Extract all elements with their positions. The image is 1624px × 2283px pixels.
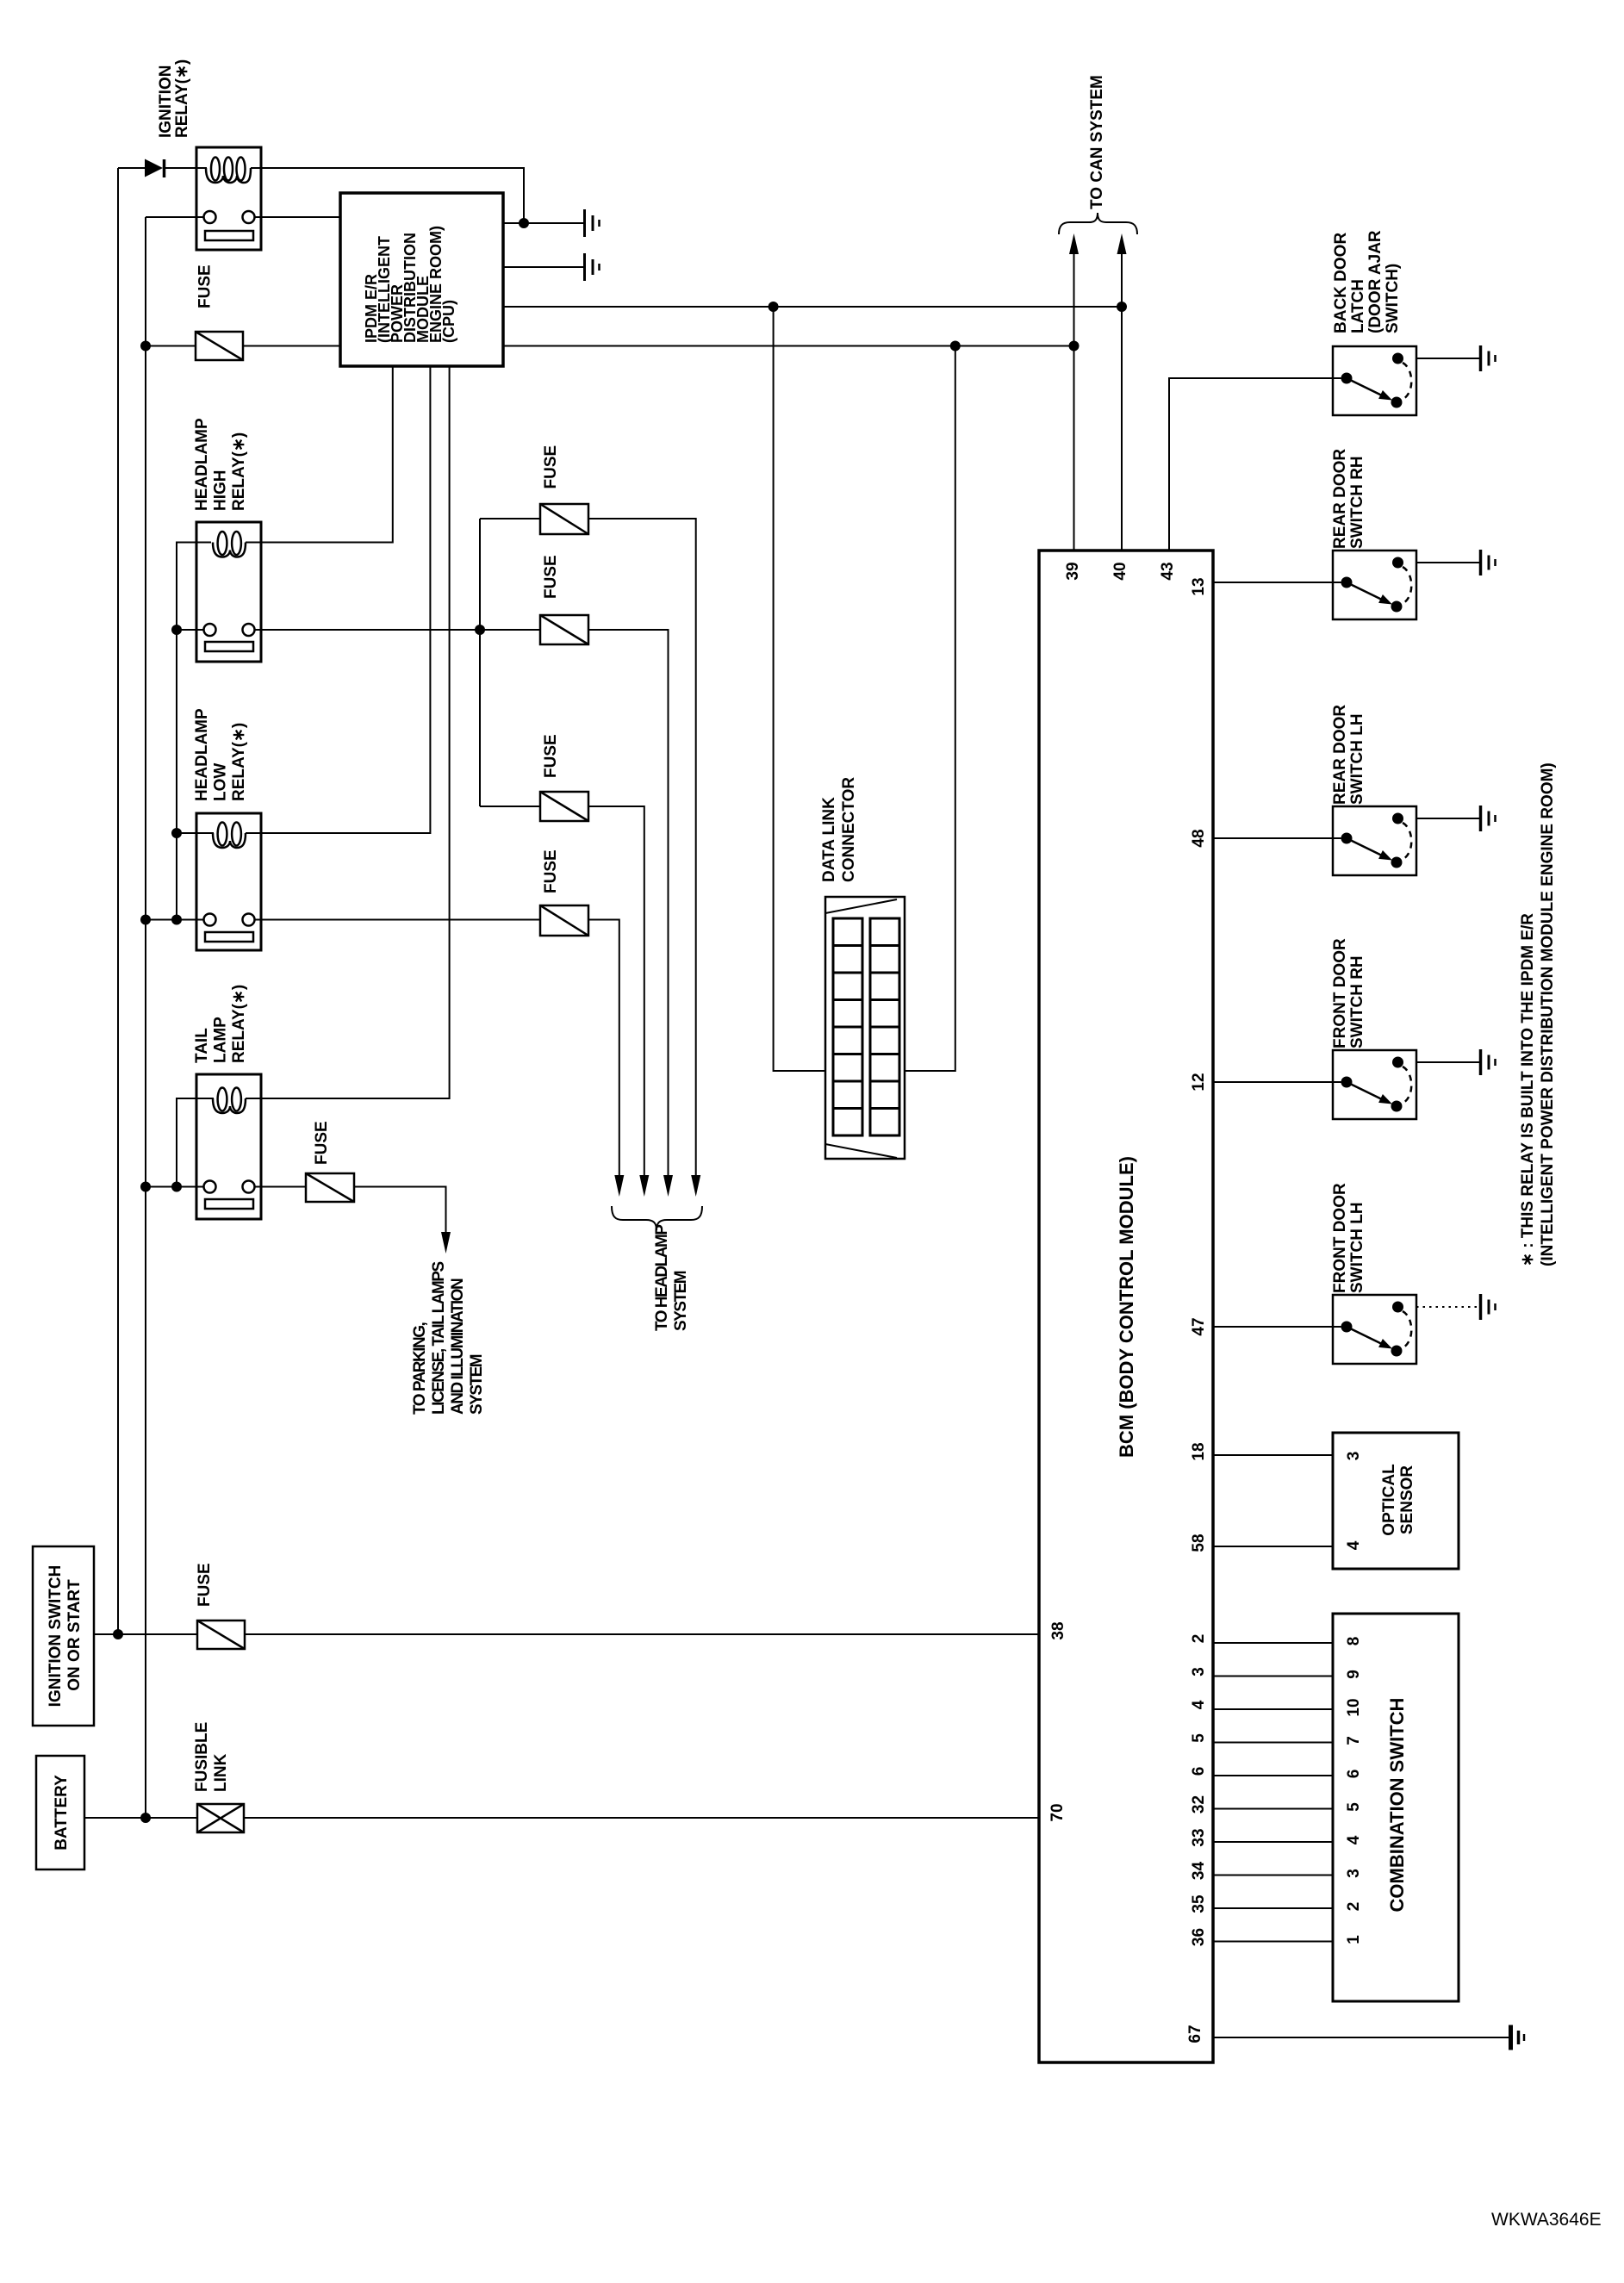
label IGNITION RELAY(*) bbox=[157, 59, 191, 138]
wire BCM pin 18 to optical sensor 3 bbox=[1213, 1454, 1333, 1456]
svg-text:FUSE: FUSE bbox=[313, 1121, 331, 1165]
wire fuse F1 to IPDM bbox=[243, 345, 340, 347]
svg-text:34: 34 bbox=[1190, 1862, 1208, 1881]
label FUSIBLE LINK bbox=[193, 1722, 230, 1792]
svg-text:18: 18 bbox=[1190, 1442, 1208, 1460]
wire ignition switch to fuse F7 bbox=[94, 1633, 197, 1635]
wire BCM 2 to combination switch 8 bbox=[1213, 1642, 1333, 1644]
wire ignition relay coil to corner node bbox=[252, 168, 524, 223]
svg-text:FRONT DOOR: FRONT DOOR bbox=[1331, 938, 1349, 1048]
svg-text:LATCH: LATCH bbox=[1349, 279, 1367, 333]
svg-text:ON OR START: ON OR START bbox=[65, 1579, 84, 1691]
wire tail relay right contact to fuse F6 bbox=[255, 1186, 307, 1188]
svg-text:TAIL: TAIL bbox=[193, 1028, 211, 1063]
svg-text:FUSE: FUSE bbox=[542, 445, 560, 489]
label pins 33/4 bbox=[1190, 1828, 1363, 1846]
wire BCM 36 to combination switch 1 bbox=[1213, 1941, 1333, 1943]
svg-text:BATTERY: BATTERY bbox=[53, 1775, 71, 1851]
svg-text:BACK DOOR: BACK DOOR bbox=[1332, 233, 1350, 333]
label BATTERY bbox=[53, 1775, 71, 1851]
label REAR DOOR SWITCH RH bbox=[1331, 449, 1366, 549]
svg-text:REAR DOOR: REAR DOOR bbox=[1331, 449, 1349, 549]
wire BCM pin 47 to front door switch LH bbox=[1213, 1326, 1341, 1328]
svg-text:9: 9 bbox=[1345, 1670, 1363, 1679]
svg-text:58: 58 bbox=[1190, 1533, 1208, 1552]
brace to headlamp system bbox=[612, 1206, 702, 1230]
svg-text:TO PARKING,: TO PARKING, bbox=[411, 1322, 429, 1415]
svg-text:RELAY(∗): RELAY(∗) bbox=[230, 723, 248, 801]
wire battery rail (net BAT) bbox=[145, 217, 146, 1818]
headlamp arrow 4 bbox=[691, 1175, 700, 1197]
headlamp arrow 2 bbox=[639, 1175, 649, 1197]
wire S5 to ground (dotted) bbox=[1416, 1306, 1479, 1308]
relay ignition IGN-RLY box bbox=[196, 147, 261, 250]
contact of ignition relay bbox=[204, 211, 255, 240]
svg-text:SWITCH): SWITCH) bbox=[1384, 264, 1402, 333]
svg-text:4: 4 bbox=[1345, 1835, 1363, 1844]
node low relay coil branch bbox=[171, 828, 182, 838]
svg-text:COMBINATION SWITCH: COMBINATION SWITCH bbox=[1386, 1698, 1408, 1913]
relay headlamp-high box bbox=[196, 522, 261, 662]
svg-text:TO CAN SYSTEM: TO CAN SYSTEM bbox=[1088, 75, 1106, 209]
wire BCM 5 to combination switch 7 bbox=[1213, 1742, 1333, 1744]
label IGNITION SWITCH ON OR START bbox=[47, 1565, 84, 1708]
node battery rail bottom bbox=[140, 1813, 151, 1823]
fuse F6 (tail lamp) bbox=[306, 1173, 354, 1202]
label FRONT DOOR SWITCH LH bbox=[1331, 1183, 1366, 1293]
wire IPDM pin to tail lamp relay coil bbox=[252, 366, 450, 1098]
svg-text:FUSE: FUSE bbox=[542, 734, 560, 778]
svg-text:TO HEADLAMP: TO HEADLAMP bbox=[653, 1224, 671, 1331]
svg-text:5: 5 bbox=[1190, 1733, 1208, 1743]
svg-text:3: 3 bbox=[1190, 1667, 1208, 1676]
label pin 18 bbox=[1190, 1442, 1208, 1460]
wire BCM pin 67 to ground bbox=[1213, 2037, 1509, 2038]
svg-text:6: 6 bbox=[1190, 1767, 1208, 1776]
svg-text:2: 2 bbox=[1190, 1634, 1208, 1644]
svg-text:FUSE: FUSE bbox=[542, 849, 560, 893]
svg-text:7: 7 bbox=[1345, 1736, 1363, 1745]
label FUSE F5 bbox=[542, 849, 560, 893]
node CAN-B / BCM39 arrow bbox=[1069, 341, 1080, 351]
wire BCM 34 to combination switch 3 bbox=[1213, 1875, 1333, 1876]
node coil/ground junction bbox=[519, 218, 529, 228]
label pin 58 bbox=[1190, 1533, 1208, 1552]
wire DLC branch A vertical bbox=[774, 307, 825, 1071]
label REAR DOOR SWITCH LH bbox=[1331, 705, 1366, 805]
svg-text:43: 43 bbox=[1159, 562, 1177, 580]
svg-text:10: 10 bbox=[1345, 1698, 1363, 1716]
ground IPDM G2 bbox=[585, 253, 600, 281]
label BCM (BODY CONTROL MODULE) bbox=[1116, 1156, 1137, 1458]
svg-text:48: 48 bbox=[1190, 829, 1208, 847]
ground BCM G3 bbox=[1511, 2025, 1525, 2050]
fuse F7 (ignition switch) bbox=[197, 1620, 245, 1649]
label TO HEADLAMP SYSTEM bbox=[653, 1224, 690, 1331]
wire BCM 4 to combination switch 10 bbox=[1213, 1708, 1333, 1710]
svg-text:RELAY(∗): RELAY(∗) bbox=[230, 432, 248, 511]
wire headlamp high coil-left branch bbox=[177, 543, 211, 920]
node CAN-A / BCM40 arrow bbox=[1117, 302, 1127, 312]
svg-text:5: 5 bbox=[1345, 1802, 1363, 1812]
wire BCM pin 12 to front door switch RH bbox=[1213, 1081, 1341, 1083]
brace to CAN system bbox=[1059, 213, 1137, 234]
BCM body control module box bbox=[1039, 551, 1213, 2062]
svg-text:REAR DOOR: REAR DOOR bbox=[1331, 705, 1349, 805]
wire battery rail to fuse F1 bbox=[146, 345, 196, 347]
label BACK DOOR LATCH (DOOR AJAR SWITCH) bbox=[1332, 230, 1402, 333]
ground S3 bbox=[1481, 806, 1496, 831]
switch S2 contacts bbox=[1341, 557, 1412, 613]
svg-text:DATA LINK: DATA LINK bbox=[820, 797, 838, 882]
node battery rail / tail contact bbox=[140, 1182, 151, 1192]
wire IPDM CAN-B (to BCM 39) bbox=[503, 345, 1074, 347]
svg-text:3: 3 bbox=[1345, 1452, 1363, 1461]
switch S3 contacts bbox=[1341, 813, 1412, 868]
wire BCM pin 13 to rear door switch RH bbox=[1213, 582, 1341, 583]
ground S5 bbox=[1481, 1294, 1496, 1320]
wire S2 to ground bbox=[1416, 562, 1479, 563]
svg-text:FRONT DOOR: FRONT DOOR bbox=[1331, 1183, 1349, 1293]
wire fuse F2 to headlamp arrow 4 bbox=[588, 519, 696, 1177]
contact of headlamp low relay bbox=[204, 914, 255, 942]
wire ignition relay right contact to IPDM bbox=[255, 216, 341, 218]
wire high relay left contact bbox=[177, 629, 204, 631]
label pin 39 bbox=[1064, 562, 1082, 580]
label DATA LINK CONNECTOR bbox=[820, 777, 858, 882]
wire low relay left contact to battery rail bbox=[146, 919, 204, 921]
ground S1 bbox=[1481, 345, 1496, 371]
label optical sensor pin 3 bbox=[1345, 1452, 1363, 1461]
label pins 35/2 bbox=[1190, 1894, 1363, 1913]
label pin 13 bbox=[1190, 577, 1208, 595]
label pin 38 bbox=[1049, 1621, 1067, 1639]
svg-text:SYSTEM: SYSTEM bbox=[672, 1271, 690, 1331]
svg-text:LAMP: LAMP bbox=[212, 1017, 230, 1063]
svg-text:SWITCH LH: SWITCH LH bbox=[1348, 1202, 1366, 1293]
arrow to parking systems bbox=[441, 1232, 451, 1253]
label pins 4/10 bbox=[1190, 1698, 1363, 1716]
wire branch to fuse F2 bbox=[480, 518, 540, 519]
svg-text:(CPU): (CPU) bbox=[440, 300, 457, 343]
relay tail-lamp box bbox=[196, 1074, 261, 1219]
wire branch to fuse F4 bbox=[480, 806, 540, 807]
switch S1 contacts bbox=[1341, 353, 1412, 408]
label pin 48 bbox=[1190, 829, 1208, 847]
svg-text:HEADLAMP: HEADLAMP bbox=[193, 708, 211, 801]
back door latch switch S1 box bbox=[1333, 346, 1416, 415]
svg-text:39: 39 bbox=[1064, 562, 1082, 580]
label OPTICAL SENSOR bbox=[1380, 1464, 1416, 1536]
label pins 34/3 bbox=[1190, 1862, 1363, 1881]
coil of tail lamp relay bbox=[213, 1088, 261, 1114]
svg-text:SWITCH RH: SWITCH RH bbox=[1348, 955, 1366, 1048]
contact of tail lamp relay bbox=[204, 1181, 255, 1210]
svg-text:WKWA3646E: WKWA3646E bbox=[1491, 2210, 1602, 2230]
label TAIL LAMP RELAY(*) bbox=[193, 985, 248, 1063]
wire tail relay coil-left branch bbox=[177, 1098, 214, 1187]
label TO CAN SYSTEM bbox=[1088, 75, 1106, 209]
coil of headlamp low relay bbox=[213, 823, 261, 849]
label pins 36/1 bbox=[1190, 1928, 1363, 1946]
label pin 47 bbox=[1190, 1317, 1208, 1335]
svg-text:36: 36 bbox=[1190, 1928, 1208, 1946]
node battery rail / low contact bbox=[140, 915, 151, 925]
switch S5 contacts bbox=[1341, 1302, 1412, 1357]
node branch / low contact bbox=[171, 915, 182, 925]
svg-text:35: 35 bbox=[1190, 1894, 1208, 1913]
wire low relay right contact to fuse F5 bbox=[255, 919, 541, 921]
data link connector DLC bbox=[825, 897, 905, 1159]
svg-text:FUSE: FUSE bbox=[542, 555, 560, 599]
wire tail relay left contact to battery rail bbox=[146, 1186, 204, 1188]
label pins 6/6 bbox=[1190, 1767, 1363, 1779]
headlamp arrow 3 bbox=[663, 1175, 673, 1197]
wire ignition-switch rail (net IGN) bbox=[117, 168, 119, 1634]
wire BCM 32 to combination switch 5 bbox=[1213, 1808, 1333, 1810]
label FUSE F6 bbox=[313, 1121, 331, 1165]
svg-text:13: 13 bbox=[1190, 577, 1208, 595]
svg-text:33: 33 bbox=[1190, 1828, 1208, 1846]
svg-text:(INTELLIGENT POWER DISTRIBUTIO: (INTELLIGENT POWER DISTRIBUTION MODULE E… bbox=[1539, 762, 1557, 1266]
svg-text:OPTICAL: OPTICAL bbox=[1380, 1464, 1398, 1536]
svg-text:BCM (BODY CONTROL MODULE): BCM (BODY CONTROL MODULE) bbox=[1116, 1156, 1137, 1458]
wire battery to fusible link bbox=[84, 1817, 197, 1819]
fuse F5 (headlamp low) bbox=[540, 905, 588, 936]
wire IPDM pin to headlamp high relay coil bbox=[252, 366, 393, 543]
label FUSE F4 bbox=[542, 734, 560, 778]
CAN arrow line 39 bbox=[1069, 233, 1079, 551]
svg-text:2: 2 bbox=[1345, 1902, 1363, 1912]
wire fuse branch 557 vertical bbox=[479, 519, 481, 806]
wire BCM pin 48 to rear door switch LH bbox=[1213, 837, 1341, 839]
svg-text:∗ : THIS RELAY IS BUILT INTO T: ∗ : THIS RELAY IS BUILT INTO THE IPDM E/… bbox=[1519, 913, 1537, 1266]
svg-text:HEADLAMP: HEADLAMP bbox=[193, 418, 211, 511]
svg-text:FUSE: FUSE bbox=[196, 264, 215, 308]
svg-text:8: 8 bbox=[1345, 1637, 1363, 1646]
label pin 12 bbox=[1190, 1073, 1208, 1091]
diode D1 bbox=[145, 159, 165, 178]
svg-text:12: 12 bbox=[1190, 1073, 1208, 1091]
label WKWA3646E bbox=[1491, 2210, 1602, 2230]
svg-text:40: 40 bbox=[1111, 562, 1129, 580]
svg-text:47: 47 bbox=[1190, 1317, 1208, 1335]
node fuse feed branch 557 bbox=[475, 625, 485, 635]
rear door switch LH S3 box bbox=[1333, 806, 1416, 875]
IPDM E/R module U1 box bbox=[340, 193, 503, 366]
svg-text:LICENSE, TAIL LAMPS: LICENSE, TAIL LAMPS bbox=[430, 1262, 448, 1415]
wire BCM 6 to combination switch 6 bbox=[1213, 1775, 1333, 1776]
svg-text:1: 1 bbox=[1345, 1935, 1363, 1944]
svg-text:67: 67 bbox=[1186, 2025, 1204, 2043]
label pins 32/5 bbox=[1190, 1795, 1363, 1813]
fusible link FL bbox=[197, 1804, 244, 1832]
label TO PARKING LICENSE TAIL LAMPS AND ILLUMINATION SYSTEM bbox=[411, 1262, 486, 1415]
ground S4 bbox=[1481, 1049, 1496, 1075]
switch S4 contacts bbox=[1341, 1057, 1412, 1112]
wire fuse F7 to BCM pin 38 bbox=[245, 1633, 1039, 1635]
label optical sensor pin 4 bbox=[1345, 1540, 1363, 1550]
wire S4 to ground bbox=[1416, 1061, 1479, 1063]
rear door switch RH S2 box bbox=[1333, 551, 1416, 619]
wire fusible link to BCM pin 70 bbox=[244, 1817, 1039, 1819]
svg-text:6: 6 bbox=[1345, 1770, 1363, 1779]
label pin 40 bbox=[1111, 562, 1129, 580]
optical sensor box bbox=[1333, 1433, 1459, 1569]
label HEADLAMP LOW RELAY(*) bbox=[193, 708, 248, 801]
wire IPDM pin to headlamp low relay coil bbox=[252, 366, 430, 833]
label FUSE F7 bbox=[196, 1563, 214, 1607]
svg-text:3: 3 bbox=[1345, 1869, 1363, 1878]
fuse F1 (ignition relay output) bbox=[196, 332, 243, 360]
label FRONT DOOR SWITCH RH bbox=[1331, 938, 1366, 1048]
svg-text:IGNITION SWITCH: IGNITION SWITCH bbox=[47, 1565, 65, 1708]
front door switch LH S5 box bbox=[1333, 1295, 1416, 1364]
wire IPDM ground 1 bbox=[503, 222, 583, 224]
node ignition rail bottom bbox=[113, 1629, 123, 1639]
fuse F4 (headlamp) bbox=[540, 792, 588, 821]
wire fuse F3 to headlamp arrow 3 bbox=[588, 630, 669, 1177]
svg-text:RELAY(∗): RELAY(∗) bbox=[173, 59, 191, 138]
wire high relay right contact to fuse F3 bbox=[255, 629, 541, 631]
label IPDM E/R text bbox=[363, 226, 457, 343]
contact of headlamp high relay bbox=[204, 624, 255, 651]
svg-text:4: 4 bbox=[1190, 1700, 1208, 1709]
ground S2 bbox=[1481, 550, 1496, 575]
wire diode feed bbox=[118, 167, 145, 169]
svg-text:LINK: LINK bbox=[212, 1753, 230, 1792]
label COMBINATION SWITCH bbox=[1386, 1698, 1408, 1913]
svg-text:LOW: LOW bbox=[212, 763, 230, 801]
note asterisk relay bbox=[1519, 762, 1557, 1266]
svg-text:RELAY(∗): RELAY(∗) bbox=[230, 985, 248, 1063]
label pins 3/9 bbox=[1190, 1667, 1363, 1679]
label pin 43 bbox=[1159, 562, 1177, 580]
svg-text:4: 4 bbox=[1345, 1540, 1363, 1550]
svg-text:CONNECTOR: CONNECTOR bbox=[840, 777, 858, 882]
coil of ignition relay bbox=[198, 158, 261, 184]
svg-text:(DOOR AJAR: (DOOR AJAR bbox=[1366, 230, 1384, 333]
CAN arrow line 40 bbox=[1117, 233, 1127, 551]
svg-text:SWITCH LH: SWITCH LH bbox=[1348, 713, 1366, 805]
fuse F3 (headlamp) bbox=[540, 615, 588, 644]
label FUSE F1 bbox=[196, 264, 215, 308]
wire IPDM ground 2 bbox=[503, 266, 583, 268]
wire fuse F6 to parking output arrow bbox=[354, 1187, 446, 1235]
wire S1 to ground bbox=[1416, 358, 1479, 359]
fuse F2 (headlamp) bbox=[540, 504, 588, 534]
svg-text:SWITCH RH: SWITCH RH bbox=[1348, 456, 1366, 549]
wire BCM pin 43 to back door latch bbox=[1169, 378, 1341, 551]
label FUSE F2 bbox=[542, 445, 560, 489]
svg-text:FUSE: FUSE bbox=[196, 1563, 214, 1607]
node CAN-A / DLC branch bbox=[768, 302, 779, 312]
svg-text:SENSOR: SENSOR bbox=[1398, 1465, 1416, 1535]
label pin 70 bbox=[1048, 1803, 1067, 1821]
wire ignition relay left contact to battery rail bbox=[146, 216, 204, 218]
combination switch box bbox=[1333, 1614, 1459, 2001]
ignition switch box bbox=[33, 1546, 94, 1726]
svg-text:FUSIBLE: FUSIBLE bbox=[193, 1722, 211, 1792]
relay headlamp-low box bbox=[196, 813, 261, 950]
label pins 5/7 bbox=[1190, 1733, 1363, 1745]
wire fuse F5 to headlamp arrow 1 bbox=[588, 920, 619, 1178]
node branch / tail contact bbox=[171, 1182, 182, 1192]
ground IPDM G1 bbox=[585, 209, 600, 237]
svg-text:38: 38 bbox=[1049, 1621, 1067, 1639]
svg-text:SYSTEM: SYSTEM bbox=[468, 1354, 486, 1415]
headlamp arrow 1 bbox=[614, 1175, 624, 1197]
wire low relay coil-left to branch bbox=[177, 832, 214, 834]
svg-text:32: 32 bbox=[1190, 1795, 1208, 1813]
wire BCM 33 to combination switch 4 bbox=[1213, 1841, 1333, 1843]
wire IPDM CAN-A (to BCM 40) bbox=[503, 306, 1122, 308]
node CAN-B / DLC branch bbox=[950, 341, 961, 351]
svg-text:HIGH: HIGH bbox=[212, 470, 230, 512]
battery box bbox=[36, 1756, 84, 1869]
wire BCM pin 58 to optical sensor 4 bbox=[1213, 1546, 1333, 1547]
node high relay contact branch bbox=[171, 625, 182, 635]
label FUSE F3 bbox=[542, 555, 560, 599]
wire DLC branch B vertical bbox=[905, 346, 955, 1072]
coil of headlamp high relay bbox=[213, 532, 261, 557]
label pins 2/8 bbox=[1190, 1634, 1363, 1646]
wire BCM 35 to combination switch 2 bbox=[1213, 1907, 1333, 1909]
svg-text:70: 70 bbox=[1048, 1803, 1067, 1821]
label HEADLAMP HIGH RELAY(*) bbox=[193, 418, 248, 511]
front door switch RH S4 box bbox=[1333, 1050, 1416, 1119]
svg-text:AND ILLUMINATION: AND ILLUMINATION bbox=[449, 1278, 467, 1415]
wire diode to ignition relay coil bbox=[165, 167, 207, 169]
wire S3 to ground bbox=[1416, 818, 1479, 819]
label pin 67 bbox=[1186, 2025, 1204, 2043]
node battery rail / fuse F1 bbox=[140, 341, 151, 351]
svg-text:IGNITION: IGNITION bbox=[157, 65, 175, 138]
wire BCM 3 to combination switch 9 bbox=[1213, 1676, 1333, 1677]
wire fuse F4 to headlamp arrow 2 bbox=[588, 806, 644, 1177]
